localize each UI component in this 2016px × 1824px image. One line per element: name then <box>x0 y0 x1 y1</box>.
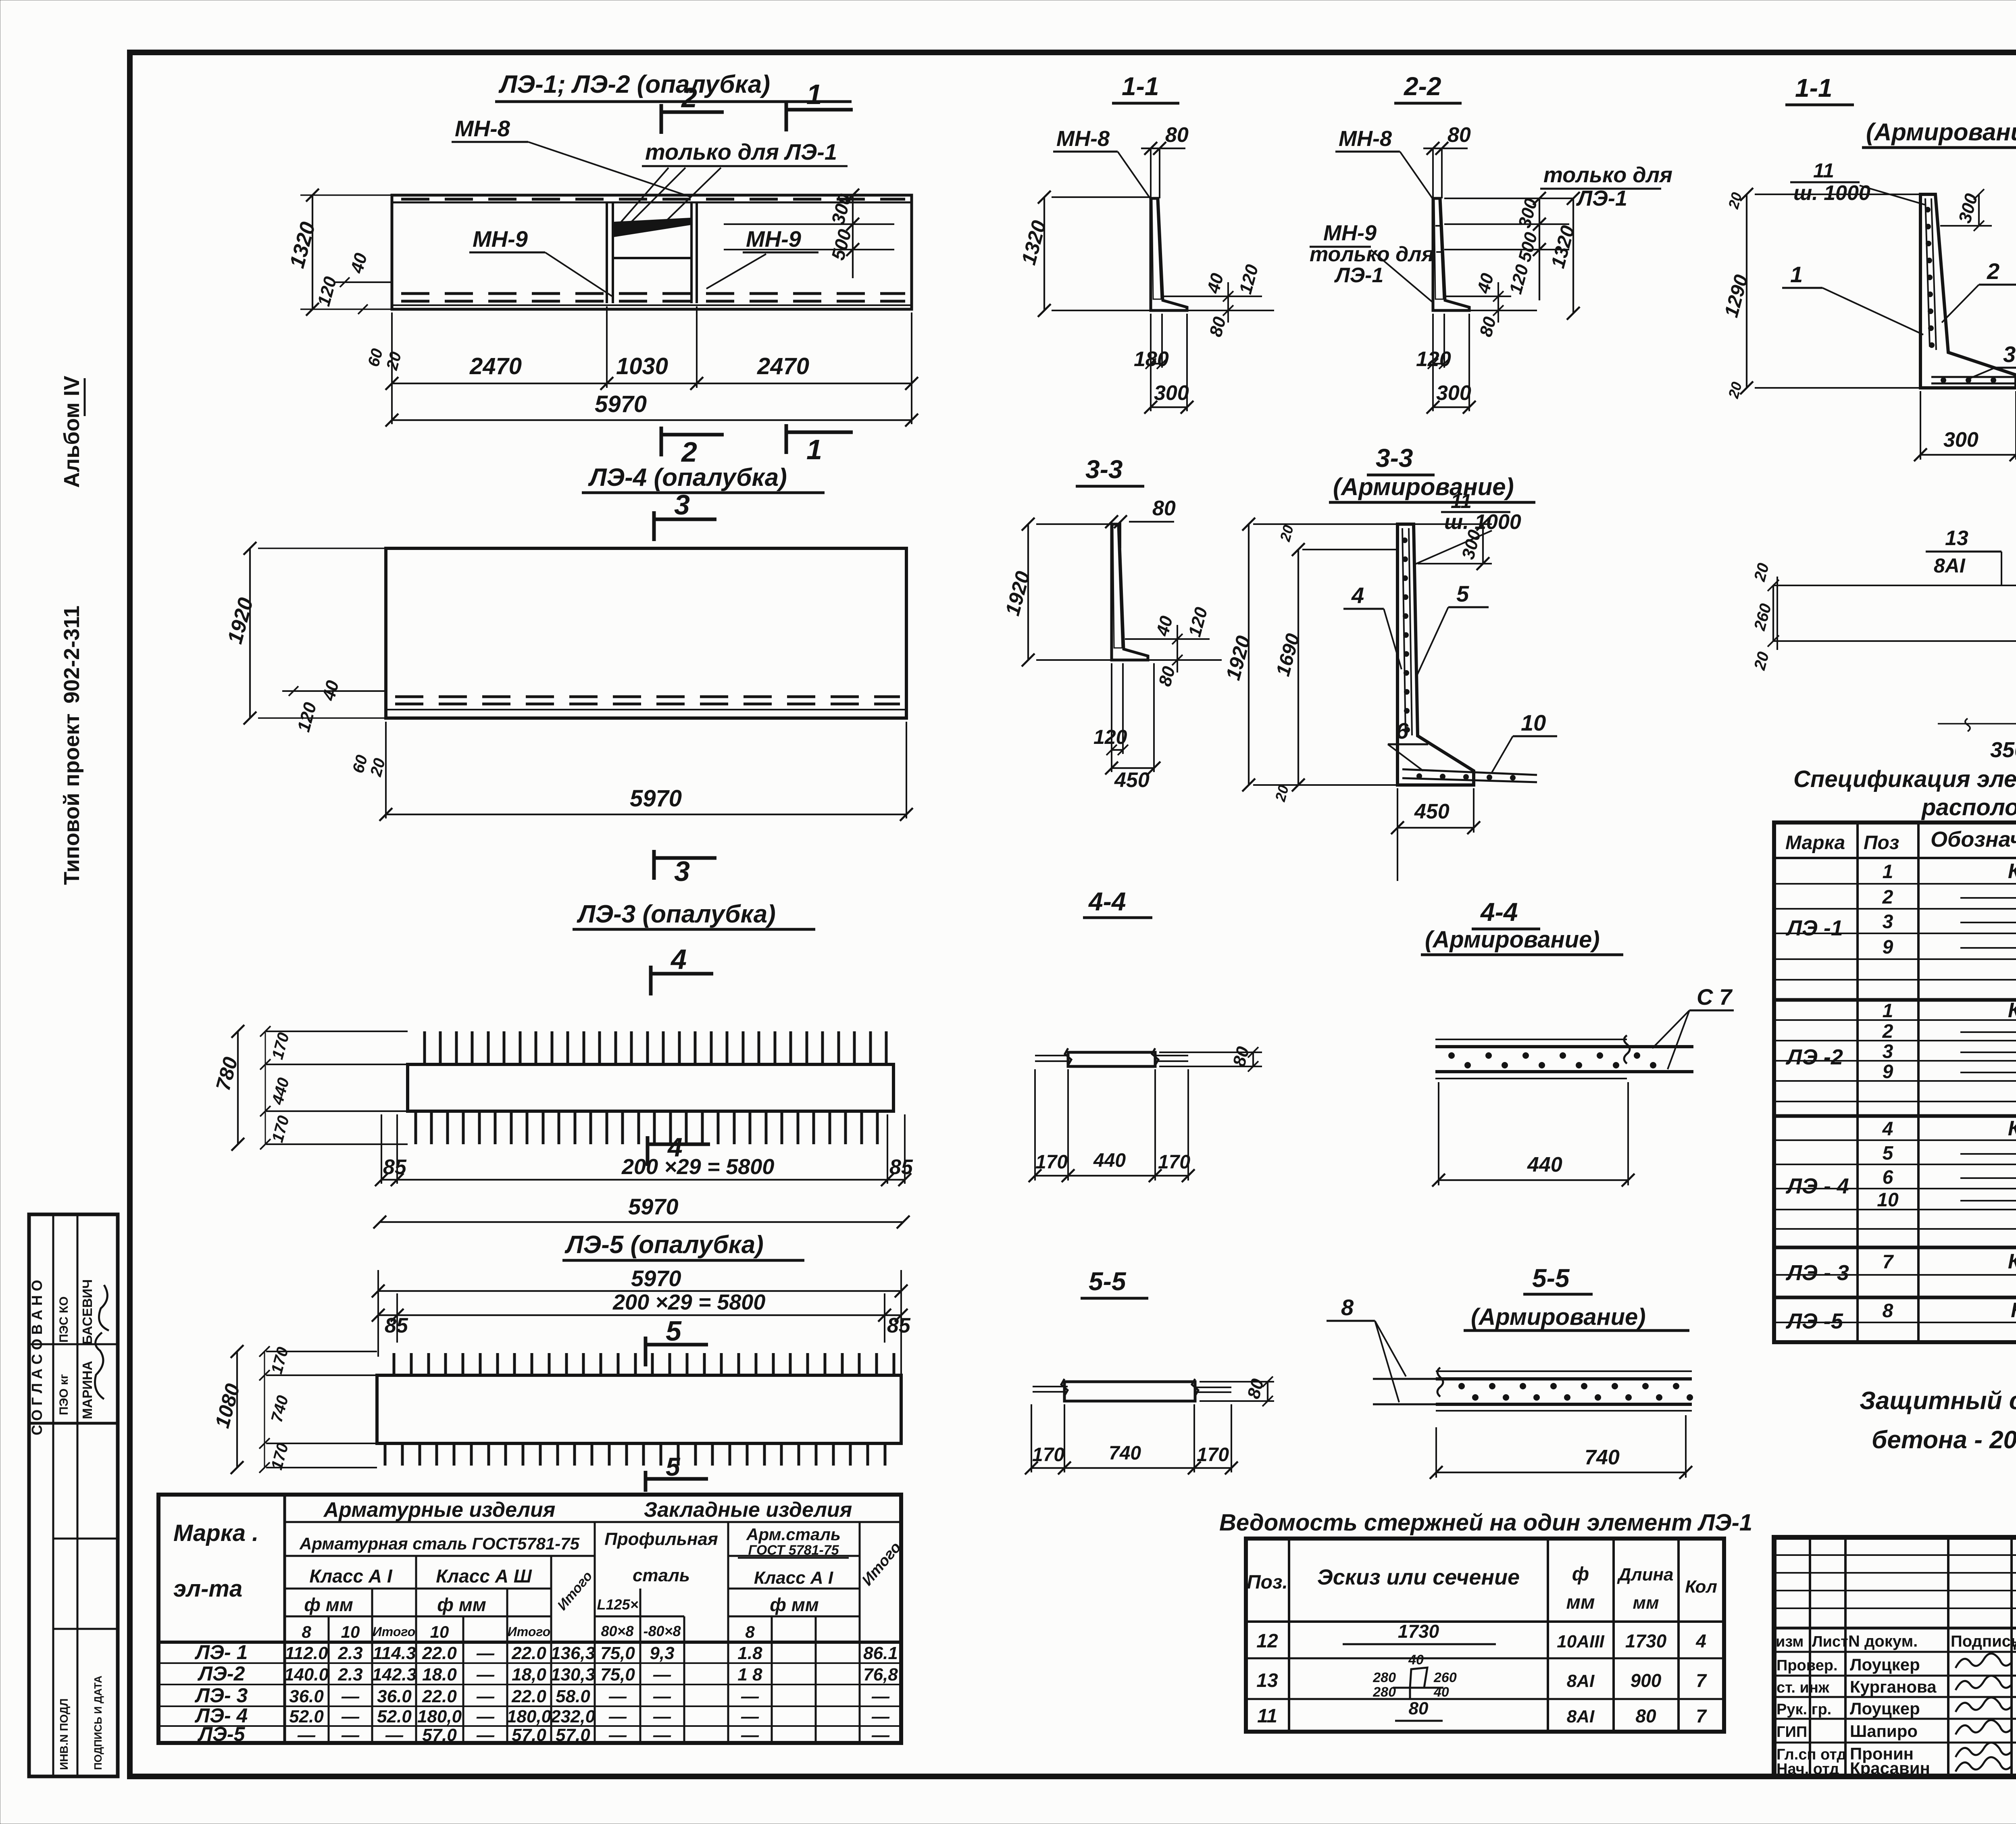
svg-text:120: 120 <box>1093 726 1127 748</box>
svg-text:—: — <box>653 1707 671 1726</box>
svg-text:300: 300 <box>1436 381 1471 405</box>
svg-text:5: 5 <box>666 1452 681 1481</box>
svg-text:—: — <box>608 1687 627 1706</box>
svg-text:Красавин: Красавин <box>1850 1759 1930 1778</box>
svg-text:—: — <box>476 1665 495 1684</box>
svg-text:85: 85 <box>383 1156 407 1179</box>
svg-text:170: 170 <box>1032 1444 1064 1466</box>
svg-text:180,0: 180,0 <box>417 1707 462 1726</box>
svg-text:1730: 1730 <box>1398 1621 1439 1642</box>
svg-text:18.0: 18.0 <box>422 1665 457 1684</box>
svg-text:4: 4 <box>1882 1118 1893 1140</box>
svg-text:3-3: 3-3 <box>1376 444 1413 473</box>
svg-text:6: 6 <box>1883 1167 1893 1188</box>
svg-text:—: — <box>476 1725 495 1745</box>
svg-text:10АIII: 10АIII <box>1557 1632 1604 1651</box>
svg-text:Курганова: Курганова <box>1850 1677 1937 1696</box>
svg-text:130,3: 130,3 <box>551 1665 595 1684</box>
svg-text:Лист: Лист <box>1812 1633 1848 1650</box>
svg-text:только для: только для <box>1543 163 1672 187</box>
svg-text:5-5: 5-5 <box>1089 1267 1127 1296</box>
svg-text:450: 450 <box>1114 768 1150 792</box>
svg-text:3: 3 <box>674 489 690 521</box>
svg-text:ф мм: ф мм <box>437 1594 486 1615</box>
svg-text:ЛЭ-1: ЛЭ-1 <box>1334 264 1383 287</box>
svg-text:—: — <box>476 1687 495 1706</box>
svg-text:170: 170 <box>1035 1151 1068 1173</box>
svg-text:ЛЭ -1: ЛЭ -1 <box>1785 916 1843 940</box>
svg-text:С О Г Л А С О В А Н О: С О Г Л А С О В А Н О <box>29 1280 45 1435</box>
svg-text:МН-9: МН-9 <box>473 226 528 252</box>
svg-text:—: — <box>741 1725 759 1745</box>
svg-text:9: 9 <box>1883 937 1893 958</box>
svg-text:Профильная: Профильная <box>604 1529 718 1549</box>
svg-text:180: 180 <box>1134 348 1169 371</box>
svg-text:—: — <box>653 1687 671 1706</box>
svg-text:170: 170 <box>1158 1151 1190 1173</box>
svg-text:80: 80 <box>1165 123 1189 147</box>
svg-text:Спецификация элементов к марки: Спецификация элементов к маркировочным с… <box>1793 766 2016 792</box>
svg-text:3: 3 <box>2003 341 2016 367</box>
svg-text:—: — <box>608 1725 627 1745</box>
svg-text:только для ЛЭ-1: только для ЛЭ-1 <box>645 139 837 164</box>
svg-text:8: 8 <box>745 1622 755 1641</box>
svg-text:Подпись: Подпись <box>1951 1632 2016 1650</box>
svg-text:—: — <box>871 1725 890 1745</box>
svg-text:ПОДПИСЬ И ДАТА: ПОДПИСЬ И ДАТА <box>92 1676 104 1770</box>
svg-text:1-1: 1-1 <box>1795 73 1833 102</box>
svg-text:ИНВ.N ПОДЛ: ИНВ.N ПОДЛ <box>58 1699 70 1770</box>
svg-text:440: 440 <box>1093 1150 1126 1171</box>
svg-text:8: 8 <box>302 1622 311 1641</box>
svg-text:МАРИНА: МАРИНА <box>80 1361 95 1419</box>
svg-text:ПЭО кг: ПЭО кг <box>57 1374 71 1415</box>
svg-text:450: 450 <box>1414 800 1450 823</box>
svg-text:5: 5 <box>1456 581 1469 606</box>
svg-text:Закладные изделия: Закладные изделия <box>644 1498 852 1522</box>
svg-text:350: 350 <box>1990 738 2016 762</box>
svg-text:18,0: 18,0 <box>512 1665 546 1684</box>
svg-text:900: 900 <box>1631 1670 1662 1691</box>
svg-text:2: 2 <box>1987 258 1999 284</box>
svg-text:2.3: 2.3 <box>337 1643 362 1663</box>
svg-text:ф мм: ф мм <box>304 1594 353 1615</box>
svg-text:9,3: 9,3 <box>650 1643 674 1663</box>
svg-text:740: 740 <box>1585 1446 1620 1469</box>
svg-text:ЛЭ-4 (опалубка): ЛЭ-4 (опалубка) <box>588 464 787 491</box>
svg-text:ф мм: ф мм <box>770 1594 819 1615</box>
svg-text:58.0: 58.0 <box>556 1687 590 1706</box>
svg-text:10: 10 <box>1877 1189 1899 1211</box>
svg-text:—: — <box>741 1707 759 1726</box>
svg-text:2470: 2470 <box>757 353 809 379</box>
svg-text:4: 4 <box>1351 583 1364 608</box>
svg-text:80: 80 <box>1409 1699 1429 1718</box>
svg-text:80: 80 <box>1635 1705 1656 1726</box>
svg-text:ЛЭ -2: ЛЭ -2 <box>1785 1045 1843 1069</box>
svg-text:40: 40 <box>1408 1652 1424 1668</box>
svg-text:МН-9: МН-9 <box>1323 221 1377 245</box>
svg-text:Арм.сталь: Арм.сталь <box>746 1525 841 1544</box>
svg-text:5: 5 <box>1883 1143 1894 1164</box>
svg-text:5970: 5970 <box>630 785 682 812</box>
svg-text:Класс А Ш: Класс А Ш <box>436 1566 532 1587</box>
svg-text:Обозначение: Обозначение <box>1931 827 2016 852</box>
svg-text:КЖ- 39: КЖ- 39 <box>2011 1299 2016 1322</box>
svg-text:5970: 5970 <box>631 1266 681 1291</box>
svg-text:2-2: 2-2 <box>1404 72 1441 101</box>
svg-text:мм: мм <box>1633 1593 1659 1613</box>
svg-text:22.0: 22.0 <box>422 1687 457 1706</box>
svg-text:Ведомость стержней на один эле: Ведомость стержней на один элемент ЛЭ-1 <box>1219 1510 1752 1536</box>
svg-text:Лоуцкер: Лоуцкер <box>1850 1655 1920 1674</box>
svg-text:140.0: 140.0 <box>284 1665 329 1684</box>
svg-text:эл-та: эл-та <box>173 1576 242 1602</box>
svg-text:ш. 1000: ш. 1000 <box>1793 181 1870 205</box>
svg-text:57.0: 57.0 <box>512 1725 546 1745</box>
svg-text:КЖ - 39: КЖ - 39 <box>2008 1250 2016 1273</box>
svg-text:Типовой проект: Типовой проект <box>60 714 84 885</box>
svg-text:7: 7 <box>1883 1251 1894 1273</box>
svg-text:2: 2 <box>681 82 697 113</box>
svg-text:4: 4 <box>1695 1630 1706 1651</box>
svg-text:(Армирование): (Армирование) <box>1471 1304 1646 1330</box>
svg-text:76,8: 76,8 <box>863 1665 898 1684</box>
svg-text:-80×8: -80×8 <box>643 1623 681 1639</box>
svg-text:Арматурные изделия: Арматурные изделия <box>323 1498 556 1522</box>
svg-text:Поз.: Поз. <box>1247 1572 1288 1593</box>
svg-text:8АI: 8АI <box>1567 1707 1595 1726</box>
svg-text:36.0: 36.0 <box>377 1687 412 1706</box>
svg-text:13: 13 <box>1256 1670 1278 1691</box>
svg-text:5-5: 5-5 <box>1532 1264 1570 1293</box>
svg-text:ГОСТ 5781-75: ГОСТ 5781-75 <box>748 1543 839 1558</box>
svg-text:12: 12 <box>1256 1630 1278 1652</box>
svg-text:КЖ - 39: КЖ - 39 <box>2008 860 2016 883</box>
svg-text:Альбом IV: Альбом IV <box>60 376 84 488</box>
svg-text:8: 8 <box>1883 1300 1893 1322</box>
svg-text:112.0: 112.0 <box>285 1643 328 1663</box>
svg-text:Арматурная сталь ГОСТ5781-75: Арматурная сталь ГОСТ5781-75 <box>299 1534 580 1553</box>
svg-text:КЖ - 39: КЖ - 39 <box>2008 999 2016 1022</box>
svg-text:8АI: 8АI <box>1934 554 1966 577</box>
svg-text:ф: ф <box>1572 1564 1589 1585</box>
svg-text:22.0: 22.0 <box>511 1643 546 1663</box>
svg-text:9: 9 <box>1883 1061 1893 1083</box>
svg-text:Дата: Дата <box>2014 1632 2016 1650</box>
svg-text:300: 300 <box>1943 428 1979 452</box>
svg-text:1730: 1730 <box>1625 1630 1667 1651</box>
svg-text:ст. инж: ст. инж <box>1776 1679 1830 1696</box>
svg-text:1.8: 1.8 <box>737 1643 762 1663</box>
svg-text:КЖ - 39: КЖ - 39 <box>2008 1117 2016 1140</box>
svg-text:22.0: 22.0 <box>511 1687 546 1706</box>
svg-text:Эскиз или сечение: Эскиз или сечение <box>1317 1565 1520 1589</box>
svg-text:3: 3 <box>1883 911 1893 933</box>
svg-text:Марка .: Марка . <box>173 1520 258 1546</box>
svg-text:—: — <box>476 1707 495 1726</box>
svg-text:280: 280 <box>1372 1684 1396 1700</box>
svg-text:—: — <box>341 1687 360 1706</box>
svg-text:Поз: Поз <box>1864 832 1899 854</box>
svg-text:МН-9: МН-9 <box>746 226 801 252</box>
svg-text:ГИП: ГИП <box>1776 1724 1807 1741</box>
svg-text:11: 11 <box>1451 490 1472 512</box>
svg-text:ЛЭ-5: ЛЭ-5 <box>198 1723 246 1745</box>
svg-text:22.0: 22.0 <box>422 1643 457 1663</box>
svg-text:3-3: 3-3 <box>1085 455 1123 484</box>
svg-text:86.1: 86.1 <box>863 1643 898 1663</box>
svg-text:L125×: L125× <box>597 1596 638 1613</box>
svg-text:ЛЭ- 1: ЛЭ- 1 <box>195 1641 248 1664</box>
svg-text:сталь: сталь <box>633 1566 690 1585</box>
svg-text:Длина: Длина <box>1616 1565 1673 1585</box>
svg-text:Лоуцкер: Лоуцкер <box>1850 1699 1920 1718</box>
svg-text:8АI: 8АI <box>1567 1671 1595 1691</box>
svg-text:80×8: 80×8 <box>601 1623 633 1639</box>
svg-text:Итого: Итого <box>508 1624 550 1639</box>
svg-text:2: 2 <box>1882 1021 1893 1042</box>
svg-text:10: 10 <box>430 1622 449 1641</box>
svg-text:260: 260 <box>1433 1670 1457 1685</box>
svg-text:ПЭС КО: ПЭС КО <box>57 1296 71 1343</box>
svg-text:52.0: 52.0 <box>289 1707 324 1726</box>
svg-text:142.3: 142.3 <box>372 1665 417 1684</box>
svg-text:МН-8: МН-8 <box>1056 127 1110 151</box>
svg-text:—: — <box>385 1725 404 1745</box>
svg-text:—: — <box>476 1643 495 1663</box>
svg-text:Итого: Итого <box>373 1624 415 1639</box>
svg-text:мм: мм <box>1566 1592 1595 1613</box>
svg-text:75,0: 75,0 <box>600 1643 635 1663</box>
svg-text:120: 120 <box>1416 348 1451 371</box>
svg-text:3: 3 <box>1883 1041 1893 1062</box>
svg-text:ЛЭ - 4: ЛЭ - 4 <box>1785 1174 1849 1198</box>
svg-text:1030: 1030 <box>616 353 668 379</box>
svg-text:(Армирование): (Армирование) <box>1425 927 1600 953</box>
svg-text:7: 7 <box>1696 1670 1707 1691</box>
svg-text:5970: 5970 <box>595 391 647 417</box>
svg-text:52.0: 52.0 <box>377 1707 412 1726</box>
svg-text:6: 6 <box>1396 718 1409 743</box>
svg-text:ЛЭ-1: ЛЭ-1 <box>1576 186 1627 210</box>
svg-text:Шапиро: Шапиро <box>1850 1722 1918 1741</box>
svg-text:11: 11 <box>1257 1705 1277 1727</box>
svg-text:—: — <box>653 1665 671 1684</box>
svg-text:—: — <box>741 1687 759 1706</box>
svg-text:85: 85 <box>889 1156 913 1179</box>
svg-text:ЛЭ- 3: ЛЭ- 3 <box>195 1684 248 1707</box>
svg-text:13: 13 <box>1945 527 1968 550</box>
svg-text:1-1: 1-1 <box>1122 72 1159 101</box>
svg-text:ЛЭ-1; ЛЭ-2 (опалубка): ЛЭ-1; ЛЭ-2 (опалубка) <box>498 71 770 98</box>
svg-text:2.3: 2.3 <box>337 1665 362 1684</box>
svg-text:ЛЭ - 3: ЛЭ - 3 <box>1785 1261 1849 1285</box>
svg-text:2470: 2470 <box>469 353 522 379</box>
svg-text:2: 2 <box>681 436 697 468</box>
svg-text:Провер.: Провер. <box>1776 1657 1838 1674</box>
svg-text:1: 1 <box>806 79 822 110</box>
svg-text:40: 40 <box>1433 1684 1449 1700</box>
svg-text:С 7: С 7 <box>1697 984 1733 1010</box>
svg-text:75,0: 75,0 <box>600 1665 635 1684</box>
svg-text:ЛЭ -5: ЛЭ -5 <box>1785 1309 1843 1333</box>
svg-text:3: 3 <box>674 856 690 887</box>
svg-text:(Армирование): (Армирование) <box>1333 473 1514 500</box>
svg-text:бетона - 20мм: бетона - 20мм <box>1872 1426 2016 1454</box>
svg-text:Нач. отд: Нач. отд <box>1776 1761 1839 1778</box>
svg-text:Кол: Кол <box>1685 1577 1717 1597</box>
svg-text:Марка: Марка <box>1785 832 1845 854</box>
svg-text:740: 740 <box>1109 1443 1141 1464</box>
svg-text:1: 1 <box>1883 1000 1893 1022</box>
svg-text:только для: только для <box>1310 243 1434 266</box>
svg-text:—: — <box>871 1707 890 1726</box>
svg-text:1: 1 <box>1883 861 1893 883</box>
svg-text:2: 2 <box>1882 887 1893 908</box>
svg-text:170: 170 <box>1197 1444 1229 1466</box>
svg-text:8: 8 <box>1341 1295 1354 1320</box>
svg-text:—: — <box>871 1687 890 1706</box>
svg-text:(Армирование): (Армирование) <box>1866 119 2016 146</box>
svg-text:57,0: 57,0 <box>556 1725 590 1745</box>
svg-text:Защитный слой: Защитный слой <box>1860 1387 2016 1415</box>
svg-text:расположенным на листе: расположенным на листе <box>1921 794 2016 820</box>
svg-text:300: 300 <box>1154 381 1189 405</box>
svg-text:—: — <box>341 1725 360 1745</box>
svg-text:10: 10 <box>341 1622 360 1641</box>
svg-text:МН-8: МН-8 <box>1339 127 1392 151</box>
svg-text:4-4: 4-4 <box>1088 887 1126 916</box>
svg-text:—: — <box>341 1707 360 1726</box>
svg-text:изм: изм <box>1776 1633 1804 1650</box>
svg-text:Рук. гр.: Рук. гр. <box>1776 1701 1831 1718</box>
svg-text:902-2-311: 902-2-311 <box>60 606 84 704</box>
svg-text:4: 4 <box>670 943 687 975</box>
svg-text:57.0: 57.0 <box>422 1725 457 1745</box>
svg-text:БАСЕВИЧ: БАСЕВИЧ <box>80 1279 95 1345</box>
svg-text:136,3: 136,3 <box>551 1643 595 1663</box>
svg-text:5: 5 <box>666 1315 682 1347</box>
svg-text:85: 85 <box>887 1314 911 1337</box>
svg-text:—: — <box>297 1725 316 1745</box>
svg-text:200 ×29 = 5800: 200 ×29 = 5800 <box>612 1290 765 1314</box>
svg-text:ЛЭ-2: ЛЭ-2 <box>198 1662 245 1685</box>
svg-text:180,0: 180,0 <box>507 1707 552 1726</box>
svg-text:—: — <box>653 1725 671 1745</box>
svg-text:Класс А I: Класс А I <box>754 1568 833 1588</box>
svg-text:1: 1 <box>1790 262 1803 287</box>
svg-text:80: 80 <box>1447 123 1471 147</box>
svg-text:N докум.: N докум. <box>1848 1632 1918 1650</box>
svg-text:ЛЭ-5 (опалубка): ЛЭ-5 (опалубка) <box>564 1231 764 1259</box>
svg-text:10: 10 <box>1521 710 1546 735</box>
svg-text:7: 7 <box>1696 1705 1707 1726</box>
svg-text:МН-8: МН-8 <box>455 116 510 141</box>
svg-text:200 ×29 = 5800: 200 ×29 = 5800 <box>621 1155 774 1179</box>
svg-text:11: 11 <box>1813 159 1834 182</box>
svg-text:80: 80 <box>1152 497 1176 520</box>
svg-text:—: — <box>608 1707 627 1726</box>
svg-text:5970: 5970 <box>628 1194 679 1219</box>
svg-text:Класс А I: Класс А I <box>309 1566 392 1587</box>
svg-text:232,0: 232,0 <box>550 1707 596 1726</box>
svg-text:1 8: 1 8 <box>737 1665 762 1684</box>
svg-text:4-4: 4-4 <box>1480 897 1518 927</box>
svg-text:36.0: 36.0 <box>289 1687 324 1706</box>
svg-text:280: 280 <box>1372 1670 1396 1685</box>
svg-text:440: 440 <box>1527 1153 1562 1176</box>
svg-text:114.3: 114.3 <box>373 1643 416 1663</box>
svg-text:1: 1 <box>806 434 822 465</box>
svg-text:ЛЭ-3 (опалубка): ЛЭ-3 (опалубка) <box>577 900 776 928</box>
